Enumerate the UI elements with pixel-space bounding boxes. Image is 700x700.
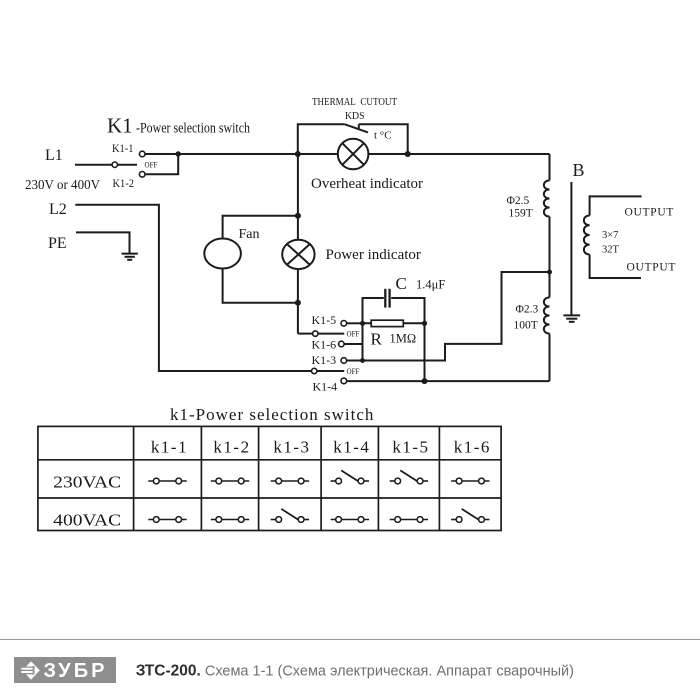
svg-text:ЗТС-200. Схема 1-1 (Схема элек: ЗТС-200. Схема 1-1 (Схема электрическая.… (136, 662, 574, 679)
svg-text:k1-2: k1-2 (213, 438, 250, 457)
wire to K1-5/K1-6 pivot (298, 333, 313, 335)
svg-text:k1-Power selection switch: k1-Power selection switch (170, 405, 374, 424)
table frame (38, 426, 501, 530)
capacitor C1 plates (385, 289, 389, 308)
switch arm K1-3/K1-4 (OFF) (317, 370, 344, 372)
switch pivot K1-3/K1-4 (312, 368, 317, 373)
wire fan branch bottom (223, 268, 298, 302)
label header k1-3 (273, 438, 310, 457)
label 1M ohm (390, 332, 417, 346)
switch cell k1-6 400VAC open (451, 509, 489, 522)
svg-text:OUTPUT: OUTPUT (627, 262, 677, 274)
svg-text:k1-1: k1-1 (151, 438, 188, 457)
thermal cutout switch KDS (298, 124, 408, 154)
contact K1-1 (139, 151, 145, 157)
svg-text:K1: K1 (107, 114, 133, 138)
wire contact K1-4 to transformer bottom (347, 380, 550, 382)
switch cell k1-5 400VAC closed (390, 517, 428, 523)
svg-text:Overheat indicator: Overheat indicator (311, 176, 423, 192)
svg-text:3×7: 3×7 (602, 230, 618, 241)
label K1-4 (313, 380, 338, 394)
contact K1-3 (341, 358, 347, 364)
svg-text:K1-4: K1-4 (313, 380, 338, 394)
wire main line A to thermal junction (178, 153, 298, 155)
svg-text:K1-3: K1-3 (312, 353, 337, 367)
switch K1 pivot (L1 selector) (112, 162, 117, 167)
junction thermal right (405, 151, 411, 157)
label THERMAL CUTOUT (312, 97, 397, 108)
svg-text:1MΩ: 1MΩ (390, 332, 417, 346)
svg-text:OFF: OFF (145, 161, 158, 170)
wire contact K1-5 to RC node (347, 322, 363, 324)
label 1.4uF (416, 278, 445, 292)
switch cell k1-6 230VAC closed (451, 478, 489, 484)
svg-text:Power indicator: Power indicator (326, 247, 421, 263)
svg-text:OFF: OFF (347, 330, 360, 339)
svg-text:-Power selection switch: -Power selection switch (136, 121, 250, 137)
wire L1 lead (75, 164, 112, 166)
wire resistor row (363, 322, 425, 324)
junction K1-3 node (360, 358, 365, 363)
ground PE (122, 254, 138, 260)
svg-text:k1-4: k1-4 (333, 438, 370, 457)
label K1 title (107, 114, 250, 138)
transformer T1 secondary winding (32T) (584, 196, 642, 278)
svg-text:OFF: OFF (347, 367, 360, 376)
svg-text:32T: 32T (602, 245, 620, 256)
label R (371, 330, 383, 349)
label 230V or 400V (25, 178, 100, 193)
lamp power indicator (282, 240, 314, 269)
label Fan (239, 227, 260, 242)
label 100T (514, 320, 538, 332)
svg-text:PE: PE (48, 235, 67, 252)
wire fan branch top (223, 216, 298, 239)
node L2 label (49, 201, 67, 218)
svg-text:k1-6: k1-6 (454, 438, 491, 457)
wire contact K1-2 to node A (145, 154, 178, 174)
label 159T (509, 208, 533, 220)
wire contact K1-6 to RC node (344, 343, 362, 345)
svg-text:k1-3: k1-3 (273, 438, 310, 457)
junction RC left (360, 321, 365, 326)
node L1 label (45, 147, 63, 164)
svg-text:230V or 400V: 230V or 400V (25, 178, 100, 193)
svg-text:K1-2: K1-2 (113, 176, 135, 190)
svg-text:K1-6: K1-6 (312, 338, 337, 352)
junction node A (176, 151, 181, 156)
label OFF (K1-5/6) (347, 330, 360, 339)
switch cell k1-4 230VAC open (331, 470, 369, 484)
svg-text:400VAC: 400VAC (53, 511, 121, 530)
switch cell k1-3 230VAC closed (271, 478, 309, 484)
label 32T (602, 245, 620, 256)
label K1-2 (113, 176, 135, 190)
label phi2.3 (516, 304, 539, 316)
switch cell k1-2 230VAC closed (211, 478, 249, 484)
label header k1-2 (213, 438, 250, 457)
label row 400VAC (53, 511, 121, 530)
svg-text:1.4μF: 1.4μF (416, 278, 445, 292)
svg-text:L2: L2 (49, 201, 67, 218)
label t C (374, 130, 392, 142)
label row 230VAC (53, 473, 121, 492)
label header k1-5 (392, 438, 429, 457)
junction thermal left (295, 151, 301, 157)
label phi2.5 (507, 195, 530, 207)
svg-text:230VAC: 230VAC (53, 473, 121, 492)
svg-text:R: R (371, 330, 383, 349)
switch cell k1-2 400VAC closed (211, 517, 249, 523)
label header k1-6 (454, 438, 491, 457)
node PE label (48, 235, 67, 252)
svg-text:C: C (396, 274, 407, 293)
label OFF (K1 selector) (145, 161, 158, 170)
logo ZUBR box (14, 657, 116, 683)
label K1-6 (312, 338, 337, 352)
junction RC right (422, 321, 427, 326)
contact K1-4 (341, 378, 347, 384)
logo ZUBR text (44, 660, 108, 682)
junction transformer tap (547, 270, 552, 275)
label K1-5 (312, 313, 337, 327)
svg-text:THERMAL CUTOUT: THERMAL CUTOUT (312, 97, 397, 108)
switch cell k1-1 230VAC closed (148, 478, 186, 484)
footer separator line (0, 639, 700, 641)
svg-text:K1-5: K1-5 (312, 313, 337, 327)
svg-text:B: B (573, 160, 585, 180)
junction fan branch top (295, 213, 301, 219)
label C (396, 274, 407, 293)
resistor R1 body (371, 320, 403, 326)
wire vertical drop to fan branch and K1-5 arm (297, 154, 299, 334)
switch arm K1-5/K1-6 (OFF) (318, 333, 344, 335)
lamp overheat indicator (338, 139, 369, 170)
ground core (563, 315, 580, 321)
svg-text:t °C: t °C (374, 130, 392, 142)
transformer T1 primary winding 1 (159T) (544, 154, 550, 298)
svg-text:Φ2.5: Φ2.5 (507, 195, 530, 207)
label KDS (345, 111, 365, 122)
switch cell k1-1 400VAC closed (148, 517, 186, 523)
label 3x7 (602, 230, 618, 241)
label B (core) (573, 160, 585, 180)
label header k1-1 (151, 438, 188, 457)
footer caption (136, 662, 574, 679)
svg-text:Fan: Fan (239, 227, 260, 242)
label header k1-4 (333, 438, 370, 457)
wire PE lead (76, 232, 130, 253)
junction RC bottom (422, 378, 428, 384)
svg-text:100T: 100T (514, 320, 538, 332)
svg-text:159T: 159T (509, 208, 533, 220)
switch K1 arm (OFF position) (118, 164, 138, 166)
label table title k1-Power selection switch (170, 405, 374, 424)
switch cell k1-4 400VAC closed (331, 517, 369, 523)
wire RC loop left and top (363, 298, 425, 381)
wire L2 to pivot K1-3/K1-4 (75, 205, 311, 371)
label Power indicator (326, 247, 421, 263)
contact K1-5 (341, 321, 347, 327)
svg-text:Φ2.3: Φ2.3 (516, 304, 539, 316)
label Overheat indicator (311, 176, 423, 192)
contact K1-2 (139, 172, 145, 178)
label K1-3 (312, 353, 337, 367)
contact K1-6 (339, 341, 345, 347)
junction fan branch bottom (295, 300, 301, 306)
transformer core line (570, 182, 572, 315)
node OUTPUT top (625, 207, 675, 219)
label OFF (K1-3/4) (347, 367, 360, 376)
label K1-1 (112, 141, 134, 155)
wire main line through overheat lamp to transformer (298, 153, 550, 155)
transformer T1 primary winding 2 (100T) (544, 298, 550, 382)
switch cell k1-5 230VAC open (390, 470, 428, 484)
switch pivot K1-5/K1-6 (313, 331, 318, 336)
motor fan (204, 239, 241, 269)
svg-text:KDS: KDS (345, 111, 365, 122)
svg-text:OUTPUT: OUTPUT (625, 207, 675, 219)
svg-text:K1-1: K1-1 (112, 141, 134, 155)
svg-text:k1-5: k1-5 (392, 438, 429, 457)
logo ZUBR icon (diamond arrow) (21, 661, 40, 679)
wire contact K1-1 to node A (145, 153, 178, 155)
svg-text:ЗУБР: ЗУБР (44, 660, 108, 682)
switch cell k1-3 400VAC open (271, 509, 309, 522)
wire contact K1-3 to transformer tap (347, 272, 550, 361)
node OUTPUT bottom (627, 262, 677, 274)
svg-text:L1: L1 (45, 147, 63, 164)
